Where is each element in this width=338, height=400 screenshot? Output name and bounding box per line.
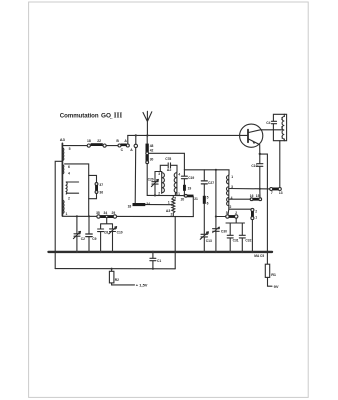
svg-text:15: 15 xyxy=(256,194,260,198)
capacitor C1 xyxy=(152,253,154,269)
svg-text:2: 2 xyxy=(171,212,173,216)
A3 left tap wire down xyxy=(55,161,62,268)
svg-text:2: 2 xyxy=(235,211,237,215)
wire bottom A2 xyxy=(147,194,184,196)
capacitor C8 xyxy=(98,229,104,232)
resistor chain 48/42 xyxy=(146,135,148,143)
svg-text:2: 2 xyxy=(230,205,232,209)
capacitor C9 xyxy=(88,216,90,251)
svg-text:35: 35 xyxy=(96,211,100,215)
bus junction dots xyxy=(76,251,78,253)
svg-text:1: 1 xyxy=(231,175,233,179)
wire pin2 tap xyxy=(228,205,252,214)
svg-text:9V: 9V xyxy=(274,284,279,289)
trimmer C10 xyxy=(110,229,116,232)
svg-text:2: 2 xyxy=(158,192,160,196)
A3 winding 3 xyxy=(63,200,64,213)
svg-text:29: 29 xyxy=(112,211,116,215)
switch tap split xyxy=(101,218,113,229)
svg-text:C4: C4 xyxy=(266,121,270,125)
node antenna/bus xyxy=(146,134,148,136)
resistor 16-15 xyxy=(250,198,253,201)
wire long vertical mid xyxy=(174,217,176,269)
svg-text:2: 2 xyxy=(68,196,70,200)
antenna xyxy=(143,111,152,135)
box C31 C32 xyxy=(226,218,245,235)
wire pin3 right xyxy=(229,188,270,190)
svg-text:36: 36 xyxy=(99,190,103,194)
svg-text:6: 6 xyxy=(68,165,70,169)
svg-text:16: 16 xyxy=(250,194,254,198)
svg-text:A3: A3 xyxy=(60,137,66,142)
svg-text:C19: C19 xyxy=(188,176,194,180)
svg-text:3: 3 xyxy=(281,126,283,130)
svg-text:C9: C9 xyxy=(92,237,96,241)
svg-text:34: 34 xyxy=(104,211,108,215)
oscillator coil xyxy=(228,175,230,206)
resistor 37/36 xyxy=(89,175,97,198)
svg-text:1: 1 xyxy=(281,135,283,139)
svg-text:C30: C30 xyxy=(221,230,227,234)
wire bottom left xyxy=(62,215,193,217)
switch osc xyxy=(226,215,229,218)
svg-text:C2: C2 xyxy=(81,237,85,241)
svg-text:C10: C10 xyxy=(117,230,123,234)
capacitor C4 xyxy=(272,121,277,123)
emitter xyxy=(248,139,260,154)
A2 secondary coil xyxy=(176,172,178,196)
svg-text:C13: C13 xyxy=(206,239,212,243)
wire box down xyxy=(279,141,281,188)
svg-text:C27: C27 xyxy=(208,181,214,185)
svg-text:A2: A2 xyxy=(167,168,172,172)
wire mid vertical xyxy=(215,170,217,251)
svg-text:3: 3 xyxy=(158,172,160,176)
svg-text:21: 21 xyxy=(194,197,198,201)
emitter branch right down xyxy=(260,154,268,264)
A3 winding 1 xyxy=(62,148,65,160)
svg-text:48: 48 xyxy=(150,144,154,148)
svg-text:Commutation: Commutation xyxy=(60,113,99,120)
svg-text:2: 2 xyxy=(281,116,283,120)
svg-text:6: 6 xyxy=(207,201,209,205)
wire terminal A down xyxy=(134,148,137,205)
svg-text:C1: C1 xyxy=(157,259,161,263)
resistor 2-1 xyxy=(251,208,254,211)
A3 shield box xyxy=(65,164,89,216)
svg-text:..: .. xyxy=(110,115,113,120)
svg-text:1: 1 xyxy=(66,212,68,216)
svg-text:C8: C8 xyxy=(104,230,108,234)
wire between switches xyxy=(106,145,118,147)
svg-text:C32: C32 xyxy=(245,239,251,243)
svg-text:R2: R2 xyxy=(115,278,119,282)
resistor 30 xyxy=(146,155,149,161)
svg-text:C78: C78 xyxy=(165,157,171,161)
svg-text:22: 22 xyxy=(97,139,101,143)
transistor xyxy=(240,124,263,147)
svg-text:4: 4 xyxy=(68,172,70,176)
svg-text:III: III xyxy=(114,112,123,120)
capacitor C10 emitter xyxy=(259,154,261,198)
A3 top tap wire xyxy=(63,145,87,147)
wire pin3 top xyxy=(155,171,162,173)
svg-text:C10: C10 xyxy=(251,164,257,168)
resistor R1 xyxy=(265,264,269,277)
svg-text:R1: R1 xyxy=(271,273,276,277)
wire chain down xyxy=(146,164,148,196)
trimmer C2 xyxy=(76,216,78,251)
switch B-A xyxy=(118,144,121,147)
resistor 20-21 xyxy=(185,194,188,197)
svg-text:C20: C20 xyxy=(148,178,154,182)
terminal A xyxy=(134,144,137,147)
svg-text:C31: C31 xyxy=(233,239,239,243)
switch 18-22 xyxy=(87,144,90,147)
svg-text:18: 18 xyxy=(87,139,91,143)
osc box coil xyxy=(283,114,285,140)
svg-text:5: 5 xyxy=(69,147,71,151)
svg-text:18: 18 xyxy=(128,204,132,208)
A3 winding 2 xyxy=(62,165,65,174)
collector xyxy=(248,130,282,133)
svg-text:MA C5: MA C5 xyxy=(254,254,264,258)
svg-text:+ 1,5V: + 1,5V xyxy=(136,283,148,288)
svg-text:42: 42 xyxy=(150,148,154,152)
svg-text:37: 37 xyxy=(99,183,103,187)
svg-text:1: 1 xyxy=(168,201,170,205)
svg-text:30: 30 xyxy=(150,157,154,161)
A2 primary coil xyxy=(161,172,163,194)
svg-text:1: 1 xyxy=(255,215,257,219)
resistor 18-24 xyxy=(135,203,172,205)
wire bus corner down to switch xyxy=(127,135,129,143)
resistor 7-13 xyxy=(270,188,273,191)
svg-text:20: 20 xyxy=(181,198,185,202)
ground bus xyxy=(49,251,273,253)
switch 35-34-29 xyxy=(97,215,100,218)
svg-text:5: 5 xyxy=(226,211,228,215)
oscillator box xyxy=(273,114,286,140)
capacitor C19 xyxy=(183,170,185,185)
resistor 5-6 xyxy=(203,196,206,204)
svg-text:2: 2 xyxy=(255,209,257,213)
resistor 19 xyxy=(183,185,186,191)
wire top bus xyxy=(128,134,240,136)
wire top right horizontal xyxy=(184,170,229,175)
wire pin4 right xyxy=(229,198,251,200)
wire tap right xyxy=(149,153,185,170)
lower supply wire xyxy=(55,268,175,270)
A3 core xyxy=(61,143,63,216)
svg-text:5: 5 xyxy=(207,196,209,200)
A3 secondary leads xyxy=(67,182,79,193)
svg-text:24: 24 xyxy=(146,202,150,206)
branch C27 / 5-6 / C13 xyxy=(203,170,205,196)
svg-text:4: 4 xyxy=(178,172,180,176)
svg-text:19: 19 xyxy=(188,186,192,190)
trimmer C13 xyxy=(201,234,208,237)
A3 secondary coil xyxy=(65,182,68,194)
capacitor C30 xyxy=(213,229,220,232)
svg-text:7: 7 xyxy=(271,191,273,195)
resistor R2 xyxy=(111,268,113,270)
svg-text:13: 13 xyxy=(279,191,283,195)
